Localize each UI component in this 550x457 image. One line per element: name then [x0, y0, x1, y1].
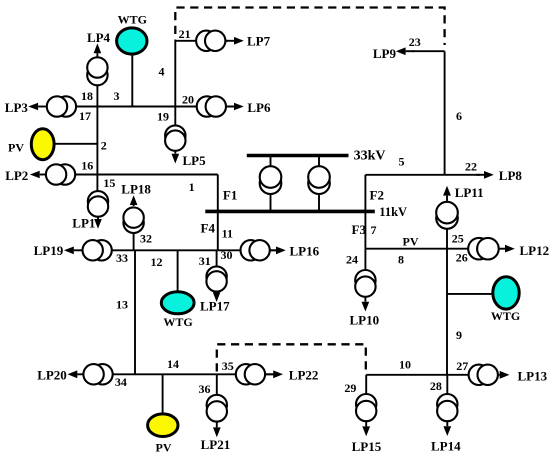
svg-text:4: 4	[159, 64, 165, 78]
svg-text:16: 16	[81, 159, 93, 173]
load arrow LP11	[443, 186, 451, 201]
wire: branch to LP1 transformer	[96, 175, 98, 194]
svg-text:LP1: LP1	[72, 216, 95, 231]
transformer 35 (LP22)	[236, 364, 265, 384]
wire: branch 36 down to transformer LP21	[216, 374, 218, 396]
svg-text:12: 12	[151, 255, 163, 269]
svg-text:LP17: LP17	[200, 298, 230, 313]
wire: bus 3 / branch 20 horizontal	[47, 106, 238, 108]
load arrow LP7	[226, 37, 244, 45]
svg-text:26: 26	[456, 251, 468, 265]
svg-text:20: 20	[182, 93, 194, 107]
generator PV (bottom)	[148, 414, 178, 437]
svg-text:33kV: 33kV	[354, 149, 386, 164]
svg-text:19: 19	[157, 110, 169, 124]
svg-text:LP20: LP20	[37, 367, 67, 382]
generator WTG (top-left)	[117, 28, 147, 54]
bus 33kV (thick)	[247, 154, 349, 158]
load arrow LP13	[492, 371, 510, 379]
transformer 31 (LP17)	[206, 266, 226, 291]
transformer 29 (LP15)	[356, 394, 376, 421]
wire: line 9 vertical (node 25 to node 28)	[446, 249, 448, 375]
generator WTG (right)	[493, 277, 519, 309]
svg-text:27: 27	[456, 359, 468, 373]
svg-text:17: 17	[79, 109, 91, 123]
svg-text:13: 13	[116, 297, 128, 311]
svg-text:LP6: LP6	[247, 100, 271, 115]
wire: dashed tie-switch line (top, node 21 to node 23)	[175, 8, 444, 46]
svg-text:LP8: LP8	[499, 168, 523, 183]
load arrow LP5	[172, 151, 180, 164]
svg-text:29: 29	[344, 381, 356, 395]
svg-text:31: 31	[199, 254, 211, 268]
load arrow LP2	[30, 171, 48, 179]
transformer 33 (LP19)	[83, 240, 112, 260]
transformer 36 (LP21)	[207, 395, 227, 422]
load arrow LP8	[476, 171, 494, 179]
wire: bus 10 horizontal	[366, 374, 468, 376]
wire: branch 32 up to transformer LP18	[133, 232, 135, 250]
wire: branch 28 down to transformer LP14	[446, 375, 448, 398]
load arrow LP15	[362, 422, 370, 436]
svg-text:LP7: LP7	[247, 33, 271, 48]
transformer 24 (LP10)	[355, 270, 375, 297]
transformer (LP1)	[88, 191, 108, 217]
svg-text:23: 23	[409, 35, 421, 49]
svg-text:11kV: 11kV	[379, 205, 407, 219]
svg-text:LP3: LP3	[5, 100, 29, 115]
svg-text:2: 2	[101, 139, 107, 153]
svg-text:F1: F1	[223, 188, 237, 203]
wire: PV (bottom) stem	[162, 374, 164, 414]
transformer 16 (LP2)	[46, 164, 75, 184]
generator PV (left)	[31, 129, 54, 160]
svg-text:14: 14	[167, 357, 179, 371]
svg-text:LP22: LP22	[289, 367, 319, 382]
svg-text:LP12: LP12	[520, 243, 550, 258]
transformer 32 (LP18)	[123, 207, 143, 233]
wire: PV bus 8 horizontal	[365, 248, 470, 250]
svg-text:WTG: WTG	[491, 309, 520, 323]
svg-text:LP10: LP10	[350, 313, 380, 328]
load arrow LP16	[268, 247, 286, 255]
svg-text:25: 25	[452, 232, 464, 246]
load arrow LP6	[226, 103, 244, 111]
load arrow LP10	[362, 297, 370, 311]
svg-text:32: 32	[140, 231, 152, 245]
load arrow LP3	[28, 103, 48, 111]
wire: dashed tie-switch line (bottom, node 35 to node 29)	[217, 344, 366, 371]
wire: line 6 vertical (node 23 down to node 22)	[444, 51, 446, 175]
svg-text:1: 1	[189, 180, 195, 194]
svg-text:PV: PV	[403, 235, 419, 249]
svg-text:PV: PV	[156, 441, 172, 455]
svg-text:LP5: LP5	[183, 153, 207, 168]
load arrow LP17	[213, 292, 221, 302]
wire: line 2 (bus 3 down to bus 15)	[96, 107, 98, 175]
wire: substation transformer 1 stem	[270, 156, 272, 212]
load arrow LP20	[68, 370, 87, 378]
transformer 26 (LP12)	[468, 238, 499, 260]
wire: branch 12 stem to WTG (middle)	[177, 250, 179, 292]
svg-text:LP13: LP13	[518, 368, 548, 383]
load arrow LP14	[443, 422, 451, 436]
load arrow LP1	[94, 217, 102, 229]
svg-text:5: 5	[399, 155, 405, 169]
transformer 20 (LP6)	[197, 96, 226, 116]
load arrow LP18	[130, 195, 138, 206]
wire: branch 21 to transformer	[175, 40, 228, 42]
wire: branch 25 up to transformer LP11	[446, 229, 448, 249]
wire: bus 33/12 horizontal	[82, 249, 218, 251]
svg-text:18: 18	[81, 89, 93, 103]
wire: branch 29 down to transformer LP15	[365, 375, 367, 398]
svg-text:F3: F3	[352, 222, 367, 237]
transformer 19 (LP5)	[165, 125, 185, 150]
svg-text:F2: F2	[370, 188, 384, 203]
svg-text:36: 36	[199, 382, 211, 396]
svg-text:34: 34	[115, 375, 127, 389]
wire: line 13 vertical (bus 33 to bus 34)	[134, 250, 136, 374]
transformer 27 (LP13)	[469, 365, 498, 385]
wire: branch 23 horizontal	[412, 50, 445, 52]
load arrow LP9	[396, 47, 414, 55]
svg-text:15: 15	[103, 176, 115, 190]
svg-text:LP21: LP21	[201, 437, 231, 452]
svg-text:8: 8	[398, 252, 404, 266]
svg-text:WTG: WTG	[163, 315, 192, 329]
wire: branch 35 to LP22	[217, 373, 276, 375]
wire: branch 24 down to transformer LP10	[364, 249, 366, 273]
substation transformer 1 (33/11kV)	[260, 166, 282, 194]
wire: feeder line 4 (node 21 down to bus 3)	[174, 40, 176, 107]
svg-text:3: 3	[114, 89, 120, 103]
transformer 18 (LP4)	[87, 57, 107, 85]
bus 11kV (thick)	[205, 210, 374, 214]
transformer 28 (LP14)	[437, 394, 457, 421]
svg-text:9: 9	[456, 328, 462, 342]
generator WTG (middle)	[161, 292, 194, 314]
wire: branch 30 to LP16	[218, 249, 279, 251]
wire: line 5/22 horizontal to LP8	[365, 174, 480, 176]
wire: bus 34/14 horizontal	[85, 373, 217, 375]
svg-text:LP2: LP2	[5, 168, 28, 183]
wire: branch 18 (bus 3 up to transformer)	[96, 78, 98, 107]
wire: substation transformer 2 stem	[318, 156, 320, 212]
svg-text:24: 24	[346, 252, 358, 266]
svg-text:LP11: LP11	[455, 185, 484, 200]
load arrow LP12	[496, 245, 515, 253]
wire: WTG (right) stem	[447, 293, 493, 295]
svg-text:LP18: LP18	[121, 181, 151, 196]
wire: bus 16/15/1 horizontal	[47, 174, 218, 176]
transformer 21 (LP7)	[196, 31, 225, 51]
svg-text:11: 11	[222, 226, 233, 240]
svg-text:33: 33	[116, 251, 128, 265]
wire: feeder F2 vertical (line 5 to 11kV bus)	[364, 175, 366, 212]
svg-text:21: 21	[179, 27, 191, 41]
wire: branch 31 down to transformer LP17	[216, 250, 218, 272]
substation transformer 2 (33/11kV)	[308, 166, 330, 194]
transformer 34 (LP20)	[83, 364, 112, 384]
svg-text:22: 22	[465, 160, 477, 174]
load arrow LP21	[213, 422, 221, 437]
svg-text:10: 10	[399, 357, 411, 371]
svg-text:35: 35	[222, 359, 234, 373]
transformer 17 (LP3)	[47, 96, 76, 116]
svg-text:LP9: LP9	[373, 46, 397, 61]
load arrow LP19	[64, 247, 83, 255]
svg-text:LP14: LP14	[431, 438, 461, 453]
wire: PV stem to line 2	[54, 143, 98, 145]
wire: feeder F1/F4 vertical (bus 1 to bus 30)	[217, 175, 219, 251]
transformer 30 (LP16)	[241, 240, 270, 260]
svg-text:LP15: LP15	[352, 439, 382, 454]
svg-text:7: 7	[371, 223, 377, 237]
svg-text:28: 28	[430, 379, 442, 393]
svg-text:LP4: LP4	[87, 30, 111, 45]
svg-text:6: 6	[456, 109, 462, 123]
svg-text:PV: PV	[8, 140, 24, 154]
svg-text:LP19: LP19	[34, 243, 64, 258]
load arrow LP4	[94, 43, 102, 57]
transformer 25 (LP11)	[436, 202, 458, 229]
svg-text:LP16: LP16	[290, 243, 320, 258]
wire: branch 19 (bus 3 down to transformer LP5)	[174, 107, 176, 129]
svg-text:F4: F4	[201, 221, 216, 236]
load arrow LP22	[265, 370, 283, 378]
wire: WTG stem to bus 3	[131, 53, 133, 107]
wire: feeder F3 vertical (11kV bus to PV bus)	[364, 211, 366, 248]
svg-text:WTG: WTG	[118, 13, 147, 27]
